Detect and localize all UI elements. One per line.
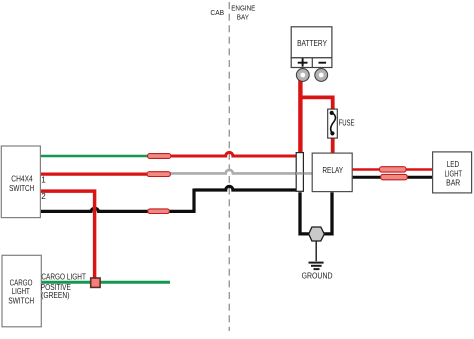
svg-text:BAY: BAY	[237, 13, 249, 22]
svg-text:BATTERY: BATTERY	[297, 39, 327, 48]
svg-text:BAR: BAR	[446, 179, 460, 188]
svg-text:SWITCH: SWITCH	[8, 296, 34, 305]
svg-text:2: 2	[41, 192, 46, 201]
svg-text:CAB: CAB	[210, 8, 224, 17]
svg-text:1: 1	[41, 176, 46, 185]
svg-text:SWITCH: SWITCH	[9, 184, 34, 193]
svg-text:LIGHT: LIGHT	[12, 287, 30, 296]
svg-text:ENGINE: ENGINE	[231, 3, 255, 12]
svg-text:GROUND: GROUND	[302, 271, 333, 280]
svg-text:RELAY: RELAY	[322, 166, 343, 175]
svg-text:(GREEN): (GREEN)	[41, 291, 70, 300]
svg-text:CARGO LIGHT: CARGO LIGHT	[41, 273, 86, 282]
svg-text:CH4X4: CH4X4	[11, 174, 33, 183]
svg-text:LED: LED	[447, 160, 460, 169]
svg-text:CARGO: CARGO	[10, 278, 33, 287]
svg-text:FUSE: FUSE	[339, 118, 355, 127]
svg-text:LIGHT: LIGHT	[445, 169, 463, 178]
